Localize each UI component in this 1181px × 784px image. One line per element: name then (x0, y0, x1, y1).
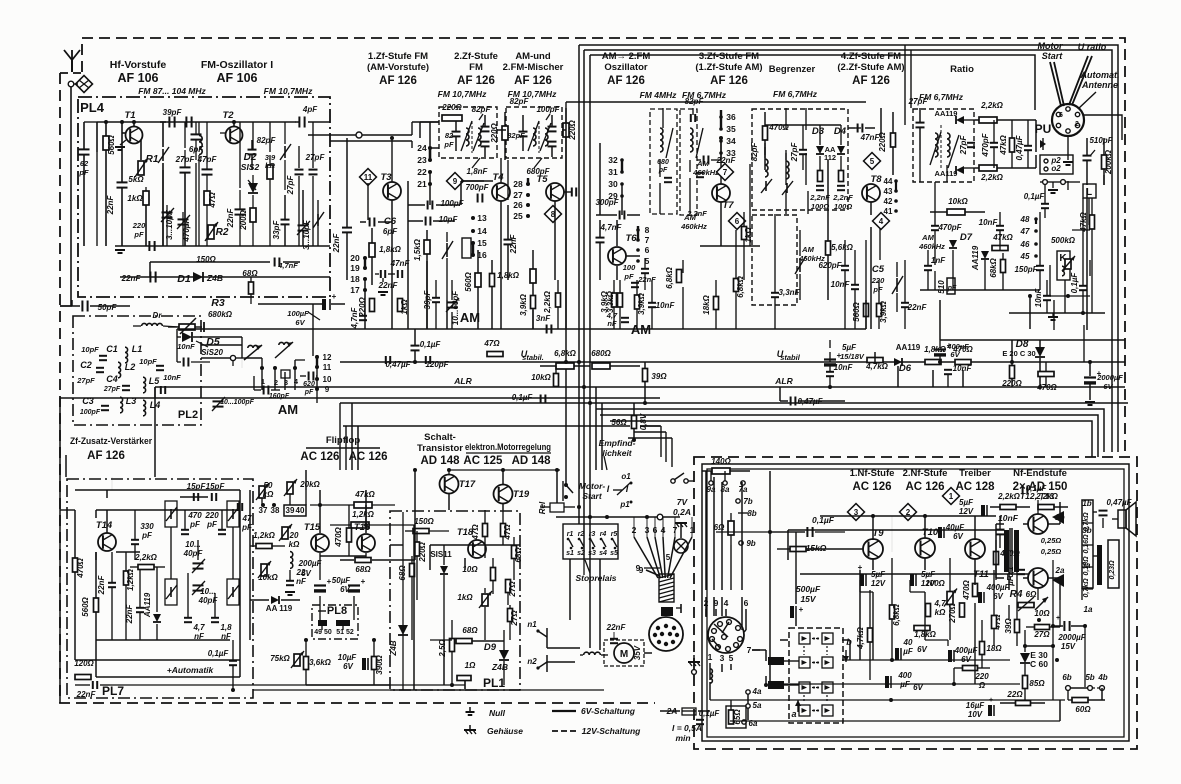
12V supply dashed frame left/bottom (60, 73, 655, 703)
bus y426 (343, 425, 630, 427)
wire NF y530 rail (788, 529, 1004, 531)
svg-text:FM 87... 104 MHz: FM 87... 104 MHz (138, 86, 206, 96)
svg-text:2000µF: 2000µF (1096, 373, 1123, 382)
svg-text:50pF: 50pF (98, 303, 118, 312)
svg-text:D7: D7 (960, 232, 973, 243)
wires motor area (547, 647, 580, 649)
wires AM osc drops (599, 143, 601, 215)
svg-text:100µF: 100µF (287, 309, 309, 318)
svg-text:T14: T14 (96, 520, 113, 531)
capacitor 62pF (79, 148, 90, 150)
resistor 470Ω T14 (73, 558, 78, 572)
wires ratio to right (1010, 119, 1036, 121)
svg-text:18Ω: 18Ω (986, 644, 1002, 653)
svg-text:pF: pF (241, 523, 253, 532)
svg-text:47kΩ: 47kΩ (354, 490, 375, 499)
svg-text:47Ω: 47Ω (208, 192, 217, 209)
wire PU down (1067, 136, 1069, 160)
svg-text:1,5kΩ: 1,5kΩ (413, 238, 422, 261)
svg-text:M: M (620, 649, 628, 660)
resistor 3,9kΩ lim rot (877, 304, 882, 317)
wire mid right rail (940, 339, 1125, 341)
capacitor 27pF (180, 166, 191, 168)
wires limiter drops (764, 143, 766, 155)
winding tap box A (1082, 500, 1093, 588)
svg-text:47Ω: 47Ω (503, 524, 512, 541)
svg-text:82pF: 82pF (750, 142, 759, 162)
svg-text:23: 23 (417, 155, 427, 165)
svg-text:31: 31 (608, 167, 618, 177)
svg-text:7: 7 (723, 168, 728, 177)
wires ff left (249, 490, 251, 640)
switch box K (1057, 251, 1070, 280)
vertical bundle bottom (565, 460, 567, 485)
svg-text:6V-Schaltung: 6V-Schaltung (581, 706, 636, 716)
svg-text:FM-Oszillator I: FM-Oszillator I (201, 59, 273, 71)
svg-text:38: 38 (271, 506, 280, 515)
svg-text:68Ω: 68Ω (355, 565, 371, 574)
svg-text:100Ω: 100Ω (925, 579, 945, 588)
svg-text:2,2kΩ: 2,2kΩ (997, 492, 1021, 501)
svg-text:5a: 5a (753, 701, 762, 710)
svg-text:2: 2 (274, 378, 278, 387)
svg-text:a: a (791, 709, 796, 719)
PL7 dash-dot box (67, 479, 253, 698)
wire NF y574 rail (800, 573, 1028, 575)
svg-text:R4: R4 (1010, 589, 1023, 600)
pot 20kΩ b (287, 482, 293, 494)
trim box c (227, 501, 239, 527)
svg-text:220Ω: 220Ω (490, 122, 499, 143)
nested rail B (584, 50, 1112, 452)
resistor 6,8kΩ NF (890, 605, 895, 619)
trim inductor AM b (279, 342, 289, 345)
svg-text:1: 1 (261, 377, 265, 386)
resistor 3,9kΩ osc (635, 295, 640, 309)
svg-text:r4: r4 (600, 531, 607, 538)
svg-text:7b: 7b (743, 497, 752, 506)
svg-text:stabil.: stabil. (522, 353, 544, 362)
svg-text:6V: 6V (343, 662, 353, 671)
resistor 68Ω PL1b (512, 546, 517, 559)
winding tap box B (1108, 540, 1119, 588)
svg-text:2000µF: 2000µF (1057, 633, 1086, 642)
wire NF emitters (872, 558, 874, 570)
cable shield hatch (659, 574, 674, 602)
svg-text:2,2kΩ: 2,2kΩ (980, 173, 1004, 182)
svg-text:6V: 6V (950, 350, 960, 359)
svg-text:220Ω: 220Ω (441, 103, 462, 112)
svg-text:470pF: 470pF (937, 223, 962, 232)
svg-text:4: 4 (724, 598, 729, 608)
dashed frame jog (60, 72, 82, 74)
resistor 270Ω rot (960, 603, 965, 617)
trim coil AM 460 (799, 258, 801, 272)
resistor 560Ω T14 (94, 598, 99, 612)
stoprelais contact block (563, 524, 618, 559)
connector circle 2 (socket) (708, 617, 744, 653)
svg-text:AF 126: AF 126 (607, 75, 645, 87)
svg-text:15V: 15V (800, 594, 816, 604)
svg-text:8: 8 (645, 225, 650, 235)
resistor 3,6kΩ (304, 657, 309, 670)
resistor 220Ω c (370, 299, 375, 312)
wire rails R4 area (1052, 560, 1054, 700)
capacitor 2,2nF 100Ω b (839, 171, 844, 182)
svg-text:27pF: 27pF (790, 142, 799, 163)
svg-text:4,7kΩ: 4,7kΩ (865, 362, 889, 371)
resistor 5,6kΩ (826, 241, 831, 255)
capacitor 6pF (191, 133, 202, 135)
capacitor 47pF bl (237, 503, 239, 511)
speaker (1118, 510, 1126, 528)
switch bank AM range (261, 368, 263, 390)
svg-text:6: 6 (1059, 112, 1063, 119)
diode AA119 ff (271, 596, 279, 604)
svg-text:56Ω: 56Ω (611, 418, 627, 427)
limiter dashed box (752, 109, 848, 210)
svg-text:10pF: 10pF (139, 357, 157, 366)
svg-text:10Ω: 10Ω (1034, 609, 1050, 618)
resistor 47Ω PL1b (501, 524, 506, 537)
diamond 2 (900, 504, 917, 521)
svg-text:150pF: 150pF (1014, 265, 1038, 274)
svg-text:T19: T19 (513, 489, 530, 500)
svg-text:460kHz: 460kHz (680, 222, 707, 231)
svg-text:+: + (837, 351, 842, 360)
svg-text:p1: p1 (619, 500, 630, 509)
wire tap box links (1093, 511, 1097, 513)
pot 50kΩ (259, 486, 265, 498)
transistor T17 (440, 475, 459, 494)
transistor T6 (608, 247, 626, 265)
svg-text:68Ω: 68Ω (242, 269, 258, 278)
wires IF strip drops (391, 200, 393, 222)
svg-text:AF 126: AF 126 (87, 450, 125, 462)
legend 6V-Schaltung (552, 710, 576, 712)
wire NF input rail (716, 531, 805, 533)
svg-text:1.Zf-Stufe FM: 1.Zf-Stufe FM (368, 51, 428, 62)
svg-text:10: 10 (323, 375, 332, 384)
wire bottom run 1 (253, 689, 390, 691)
svg-text:AC 126: AC 126 (853, 481, 892, 493)
diamond 6 (729, 213, 746, 230)
svg-text:120pF: 120pF (425, 360, 449, 369)
svg-text:400: 400 (897, 671, 912, 680)
svg-text:2.Nf-Stufe: 2.Nf-Stufe (903, 468, 948, 479)
resistor 27Ω PL1b (508, 609, 513, 622)
resistor 1kΩ osc (742, 227, 747, 240)
pot 10kΩ (261, 564, 267, 576)
arrow 2b marker (1052, 511, 1064, 524)
svg-text:37: 37 (259, 506, 268, 515)
wires flipflop (305, 490, 307, 505)
coil L2 (118, 362, 121, 378)
svg-text:6V: 6V (1103, 382, 1113, 391)
svg-text:5kΩ: 5kΩ (128, 175, 144, 184)
wire transformer input (996, 523, 1004, 525)
bus ALR (155, 386, 1125, 388)
resistor 27Ω PL1a (506, 580, 511, 593)
resistor 560Ω c (490, 274, 495, 287)
wire T1 collector (133, 122, 135, 126)
pins 39 40 (284, 505, 306, 516)
svg-text:SIS11: SIS11 (430, 550, 452, 559)
svg-text:4: 4 (879, 217, 884, 226)
svg-text:36: 36 (726, 112, 736, 122)
trim box b (165, 579, 177, 605)
svg-text:470pF: 470pF (981, 132, 990, 157)
svg-text:Schalt-: Schalt- (424, 432, 456, 443)
wire PL1 interior (430, 544, 520, 546)
svg-text:27Ω: 27Ω (508, 581, 517, 598)
ratio transformer dashed box (913, 109, 974, 182)
svg-text:Nf-Endstufe: Nf-Endstufe (1013, 468, 1067, 479)
svg-text:18kΩ: 18kΩ (702, 294, 711, 314)
svg-text:13: 13 (477, 213, 487, 223)
wire flipflop rails (319, 490, 321, 533)
svg-text:10nF: 10nF (998, 513, 1019, 523)
wire B+ rail osc (566, 101, 866, 103)
resistor 470Ω lim (763, 126, 768, 140)
svg-text:C5: C5 (872, 264, 885, 275)
svg-text:1.Nf-Stufe: 1.Nf-Stufe (850, 468, 895, 479)
svg-text:40pF: 40pF (183, 549, 204, 558)
svg-text:25: 25 (513, 211, 523, 221)
svg-text:r5: r5 (611, 531, 618, 538)
wire rails into ratio (904, 45, 906, 125)
svg-text:9b: 9b (746, 539, 755, 548)
capacitor 22nF T14a (108, 582, 116, 584)
trim inductor AM a (248, 345, 258, 348)
svg-text:1kΩ: 1kΩ (127, 194, 143, 203)
wire NF bottom rails (860, 659, 1010, 661)
svg-text:C1: C1 (106, 344, 118, 354)
resistor 47Ω (204, 191, 210, 205)
wire PL2 to IF link (316, 398, 318, 403)
svg-text:pF: pF (658, 167, 668, 174)
diamond 11 (360, 169, 377, 186)
svg-text:PL7: PL7 (102, 684, 124, 698)
svg-text:22nF: 22nF (606, 623, 627, 632)
svg-text:(AM-Vorstufe): (AM-Vorstufe) (367, 62, 429, 73)
svg-text:22nF: 22nF (332, 233, 341, 254)
svg-text:15/18V: 15/18V (840, 352, 865, 361)
svg-text:20kΩ: 20kΩ (299, 480, 320, 489)
svg-text:47kΩ: 47kΩ (992, 233, 1013, 242)
svg-text:500kΩ: 500kΩ (1051, 236, 1076, 245)
svg-text:0,7kΩ: 0,7kΩ (1083, 578, 1090, 598)
resistor 470Ω ff (347, 528, 352, 542)
svg-text:1,2kΩ: 1,2kΩ (126, 568, 135, 591)
PL8 dash-dot box (312, 605, 358, 639)
wire PL1 bottom (390, 689, 520, 691)
svg-text:5,6kΩ: 5,6kΩ (831, 243, 854, 252)
svg-text:Null: Null (489, 708, 506, 718)
svg-text:AF 126: AF 126 (457, 75, 495, 87)
wire PL7 bottom (110, 684, 465, 686)
svg-text:nF: nF (296, 577, 307, 586)
svg-text:s5: s5 (610, 550, 618, 557)
svg-text:Treiber: Treiber (959, 468, 991, 479)
switch on lamp wire (671, 479, 675, 483)
svg-text:kΩ: kΩ (263, 490, 274, 499)
svg-text:39Ω: 39Ω (651, 372, 667, 381)
capacitor 2nd top (185, 117, 187, 128)
resistor 60Ω (1072, 698, 1088, 703)
svg-text:220: 220 (132, 221, 146, 230)
svg-text:470Ω: 470Ω (334, 526, 343, 547)
svg-text:150Ω: 150Ω (414, 517, 434, 526)
bus rails right staircase (610, 421, 1092, 457)
resistor 18kΩ osc (714, 297, 719, 310)
transistor T15 (311, 534, 329, 552)
svg-text:1a: 1a (1084, 605, 1093, 614)
svg-text:AF 126: AF 126 (852, 75, 890, 87)
svg-text:100pF: 100pF (80, 409, 101, 416)
svg-text:1,8nF: 1,8nF (467, 167, 489, 176)
plug bracket 15 16 (462, 238, 471, 258)
svg-text:65Ω: 65Ω (733, 709, 742, 725)
svg-text:5: 5 (870, 157, 875, 166)
svg-text:300pF: 300pF (595, 198, 619, 207)
svg-text:C2: C2 (80, 360, 92, 370)
PL2 module dash-dot box (73, 316, 201, 425)
svg-text:o2: o2 (1051, 164, 1061, 173)
svg-text:11: 11 (323, 363, 332, 372)
wires relay block down (569, 559, 571, 620)
svg-text:560Ω: 560Ω (464, 271, 473, 291)
svg-text:R2: R2 (216, 227, 229, 238)
diamond 8 (545, 206, 562, 223)
svg-text:ALR: ALR (453, 376, 472, 386)
svg-text:2,2kΩ: 2,2kΩ (543, 290, 552, 314)
svg-text:PU: PU (1035, 122, 1052, 136)
svg-text:220: 220 (974, 672, 989, 681)
svg-text:Dr: Dr (153, 311, 163, 320)
trim arrow (317, 214, 319, 226)
svg-text:Z4B: Z4B (491, 662, 508, 672)
junction dots NF (871, 514, 875, 518)
IF transformer box 1 (FM 10,7MHz) (439, 107, 497, 158)
svg-text:32: 32 (608, 155, 618, 165)
PL1 dash-dot box (390, 511, 520, 690)
svg-text:FM 4MHz: FM 4MHz (640, 90, 678, 100)
6V solid inner frame NF box (702, 464, 1129, 741)
svg-text:AC 125 AD 148: AC 125 AD 148 (463, 455, 551, 467)
resistor 220Ω right (1010, 366, 1015, 379)
transistor T7 (712, 184, 730, 202)
svg-text:10nF: 10nF (163, 373, 181, 382)
coil below pin 1 (710, 669, 712, 683)
svg-text:T17: T17 (459, 479, 476, 490)
ground bus right col (1009, 312, 1105, 314)
ground emitter T1 (120, 140, 126, 145)
resistor 200Ω (250, 208, 256, 222)
transistor T5 (546, 183, 564, 201)
svg-text:ALR: ALR (774, 376, 793, 386)
wire vertical bundle (565, 121, 567, 460)
svg-text:10nF: 10nF (834, 363, 854, 372)
svg-text:Z4B: Z4B (206, 273, 223, 283)
svg-text:220Ω: 220Ω (568, 119, 577, 140)
svg-text:+: + (332, 292, 337, 301)
svg-text:n2: n2 (527, 657, 537, 666)
svg-text:48: 48 (1020, 215, 1030, 224)
svg-text:510: 510 (937, 280, 946, 294)
capacitor 22nF T3 (342, 227, 352, 229)
elco 2000µF 15V (1063, 621, 1065, 631)
resistor 3,3kΩ (618, 293, 623, 307)
resistor 3,9kΩ rotB (612, 293, 617, 307)
svg-text:0,1µF: 0,1µF (1070, 272, 1079, 294)
svg-text:6: 6 (645, 245, 650, 255)
wire NF y516 rail (820, 515, 996, 517)
svg-text:T5: T5 (536, 174, 548, 185)
wires IF boxes (430, 147, 439, 149)
svg-text:112: 112 (824, 153, 836, 162)
legend 12V-Schaltung (552, 730, 576, 732)
svg-text:6pF: 6pF (383, 227, 398, 236)
svg-text:D3: D3 (812, 126, 825, 137)
svg-text:AM: AM (921, 233, 934, 242)
diamond 4 (873, 213, 890, 230)
diamond 7 (717, 164, 734, 181)
motor start switch (564, 483, 568, 487)
wires PL4 column fills (184, 122, 186, 148)
svg-text:+: + (799, 605, 804, 614)
svg-text:0,1µF: 0,1µF (1024, 192, 1046, 201)
resistor 47Ω PL1a (483, 524, 488, 537)
svg-text:220Ω: 220Ω (418, 541, 427, 562)
svg-text:6Ω: 6Ω (714, 523, 725, 532)
svg-text:82pF: 82pF (507, 131, 525, 140)
transistor T4 (492, 183, 510, 201)
inductor box L (1083, 184, 1096, 198)
svg-text:Zf-Zusatz-Verstärker: Zf-Zusatz-Verstärker (70, 436, 152, 447)
limiter lower dashed box (752, 215, 797, 305)
svg-text:4,7nF: 4,7nF (350, 306, 359, 329)
resistor 560Ω b (475, 273, 481, 287)
junction dots bottom (413, 468, 417, 472)
svg-text:PL8: PL8 (327, 605, 347, 617)
wire bottom run 2 (520, 689, 604, 691)
svg-text:82pF: 82pF (685, 97, 705, 106)
resistor 27Ω NF (1035, 625, 1050, 630)
svg-text:22nF: 22nF (76, 690, 97, 699)
diode Z4B flipflop (398, 625, 408, 635)
wire ratio out (865, 300, 867, 329)
svg-text:3nF: 3nF (536, 314, 551, 323)
svg-text:40: 40 (296, 506, 305, 515)
svg-text:27pF: 27pF (286, 175, 295, 196)
svg-text:Stoprelais: Stoprelais (575, 573, 616, 583)
svg-text:0,25Ω: 0,25Ω (1041, 547, 1062, 556)
svg-text:1nF: 1nF (931, 256, 946, 265)
svg-text:AM-und: AM-und (515, 51, 551, 62)
svg-text:44: 44 (884, 177, 893, 186)
svg-text:nF: nF (607, 319, 617, 328)
svg-text:27pF: 27pF (76, 376, 95, 385)
transistor T12 (1028, 514, 1048, 534)
svg-text:L5: L5 (149, 376, 160, 386)
junction circle PL2 out (230, 355, 235, 360)
transistor T10 (915, 538, 935, 558)
svg-text:22nF: 22nF (226, 208, 235, 229)
diamond 1 (943, 488, 960, 505)
svg-text:µF: µF (902, 647, 914, 656)
svg-text:lichkeit: lichkeit (602, 448, 632, 458)
